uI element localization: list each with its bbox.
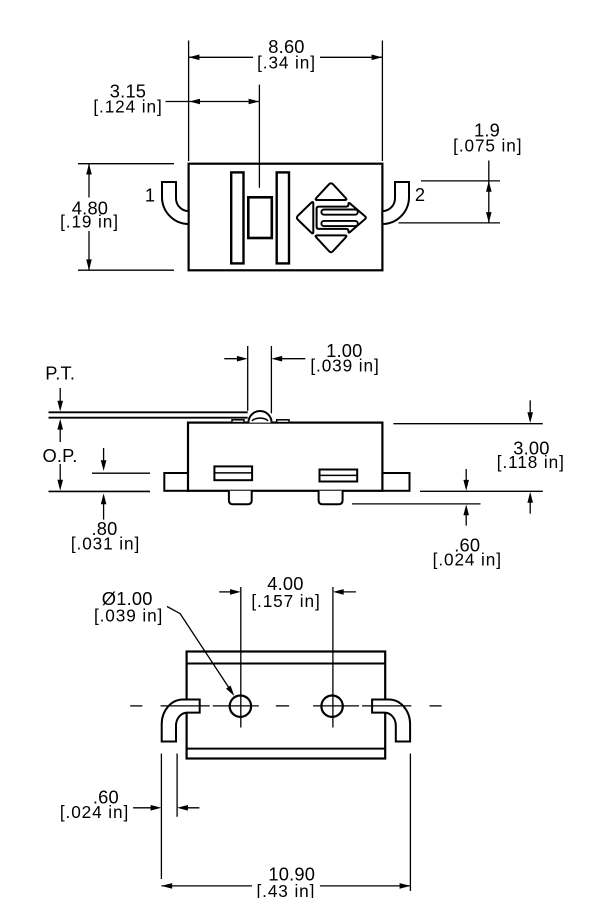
svg-text:[.124 in]: [.124 in] [93, 97, 162, 117]
dimension 8.60 [.34 in] [189, 36, 383, 161]
dimension 1.9 [.075 in] [399, 120, 523, 223]
dimension 3.15 [.124 in] [93, 81, 259, 188]
P.T. label and arrow [45, 362, 75, 411]
side view: left mounting flange [164, 473, 188, 491]
pin label 2 [415, 184, 425, 205]
svg-text:[.075 in]: [.075 in] [453, 136, 522, 156]
flange top reference line [92, 472, 150, 474]
dimension .80 [.031 in] [71, 448, 140, 554]
side view: contact bump left [232, 420, 244, 423]
side view: foot left [229, 491, 252, 505]
dimension 3.00 [.118 in] [393, 400, 564, 513]
svg-text:[.039 in]: [.039 in] [310, 356, 379, 376]
ECE logo bottom triangle [316, 235, 347, 252]
dimension .60 [.024 in] side view [433, 469, 502, 570]
svg-text:[.024 in]: [.024 in] [60, 802, 129, 822]
bottom view: hook tab left [162, 700, 200, 742]
svg-text:P.T.: P.T. [45, 362, 75, 383]
side view: terminal block right [320, 470, 358, 482]
O.P. reference line (body bottom extended) [49, 490, 151, 492]
pin label 1 [145, 184, 155, 205]
bottom view: bracket body [187, 652, 386, 759]
side view: right mounting flange [382, 473, 409, 491]
terminal hook 2 (right) [382, 182, 409, 224]
O.P. label and arrows [42, 419, 77, 491]
feet bottom reference line [352, 503, 481, 505]
dimension .60 [.024 in] bottom view [60, 754, 200, 880]
top view: switch body outline [189, 164, 383, 271]
ECE logo top triangle [316, 183, 347, 200]
ECE logo arrow E [317, 203, 366, 233]
mounting hole right [321, 696, 342, 717]
svg-text:[.118 in]: [.118 in] [497, 452, 565, 472]
dimension 4.00 [.157 in] [219, 573, 356, 727]
side view: terminal block left [214, 466, 252, 480]
side view: switch body [188, 423, 382, 491]
svg-text:[.024 in]: [.024 in] [433, 550, 502, 570]
svg-text:O.P.: O.P. [42, 445, 77, 466]
side view: foot right [319, 491, 343, 505]
side view: contact bump right [277, 420, 289, 423]
contact bar left [231, 172, 243, 263]
dimension 1.00 [.039 in] [224, 340, 379, 414]
dimension 10.90 [.43 in] [161, 754, 410, 898]
side view: actuator dome inner [252, 418, 268, 421]
ECE logo left triangle [297, 202, 313, 233]
svg-text:[.43 in]: [.43 in] [257, 881, 316, 898]
bottom view: hook tab right [372, 700, 410, 742]
side view: actuator dome outer [248, 411, 271, 423]
svg-text:[.039 in]: [.039 in] [94, 605, 163, 625]
horizontal centerline (dash-dot) [130, 705, 441, 707]
center plunger window [248, 197, 271, 238]
svg-text:2: 2 [415, 184, 425, 205]
dimension 4.80 [.19 in] [60, 164, 174, 271]
svg-text:1: 1 [145, 184, 155, 205]
mounting hole left [230, 696, 251, 717]
hole diameter callout leader [94, 588, 234, 696]
svg-text:[.157 in]: [.157 in] [251, 591, 320, 611]
svg-text:[.19 in]: [.19 in] [60, 211, 119, 231]
contact bar right [277, 172, 289, 263]
P.T. free-position reference lines [49, 412, 248, 417]
terminal hook 1 (left) [162, 182, 189, 224]
svg-text:[.34 in]: [.34 in] [257, 53, 316, 73]
svg-text:[.031 in]: [.031 in] [71, 534, 140, 554]
